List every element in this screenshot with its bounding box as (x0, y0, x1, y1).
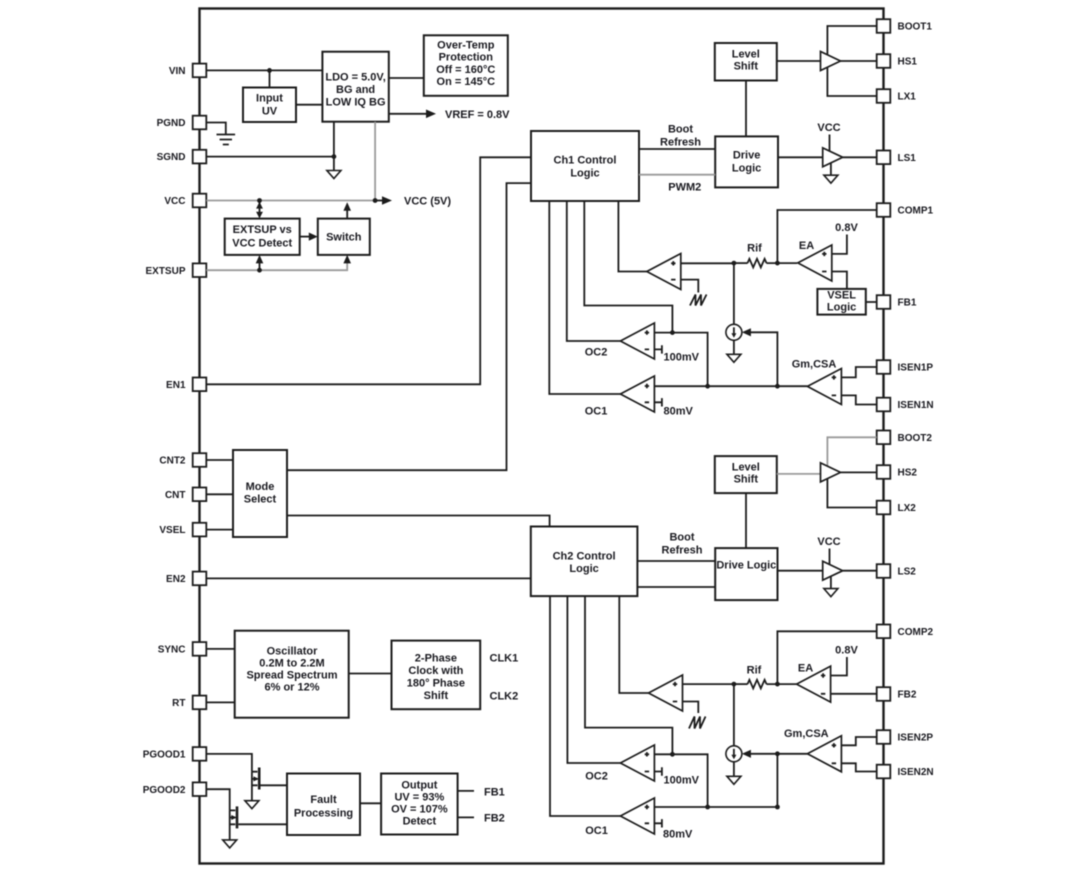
block Ch2 Control Logic (531, 527, 638, 597)
net label OC1-1 (585, 406, 608, 418)
wire LS2 driver to LS2 pin (843, 570, 877, 572)
net label OC2-2 (585, 771, 608, 783)
wire Drive Logic 2 to LS2 driver (778, 570, 823, 572)
wire Ch2 to Drive Logic 2 boot refresh (637, 560, 715, 562)
svg-text:Logic: Logic (827, 302, 856, 314)
pin LS1 (877, 151, 917, 165)
wire ISEN1N to CSA1 minus (841, 395, 876, 404)
svg-text:VSEL: VSEL (827, 290, 856, 302)
current source I2 (726, 746, 742, 762)
wire OC1-2 plus line (654, 806, 777, 808)
driver U-LS2 (823, 561, 843, 580)
svg-text:Logic: Logic (569, 563, 598, 575)
block Oscillator (235, 631, 349, 718)
wire Mode Select to Ch2 Control Logic (287, 516, 550, 527)
reference 100mV OC2-1 (654, 345, 699, 363)
pin RT (172, 696, 206, 710)
svg-text:0.8V: 0.8V (835, 645, 858, 657)
comparator OC1-1 (620, 376, 654, 412)
wire BOOT2 lower to LX2 (827, 474, 876, 508)
wire VIN to LDO (206, 69, 322, 71)
svg-text:Detect: Detect (403, 816, 437, 828)
svg-text:VCC Detect: VCC Detect (232, 238, 292, 250)
svg-text:ISEN1N: ISEN1N (898, 400, 934, 411)
net label VREF = 0.8V (445, 109, 510, 121)
wire VIN junction to Input UV (269, 70, 271, 87)
wire Q1 gate to Fault Processing (261, 784, 288, 786)
pin LX2 (877, 501, 917, 515)
block 2-Phase Clock (392, 641, 481, 710)
svg-text:FB2: FB2 (898, 690, 917, 701)
net label EA1 (799, 240, 814, 252)
value label 0.8V EA1 (835, 222, 858, 234)
wire PWM1 plus input (681, 262, 734, 264)
svg-text:80mV: 80mV (664, 406, 694, 418)
svg-text:VIN: VIN (169, 66, 186, 77)
ground I1 (727, 354, 741, 362)
node SGND junction (332, 154, 337, 159)
wire CNT2 to Mode Select (206, 459, 233, 461)
wire PGOOD1 to Q1 drain (206, 754, 252, 772)
wire Ch1 to OC2-1 plus node (584, 201, 672, 333)
wire PWM1 minus to ramp (681, 280, 699, 293)
ground Q1 (245, 801, 259, 809)
node VIN junction (267, 68, 272, 73)
pin VIN (169, 64, 206, 78)
svg-text:Logic: Logic (570, 168, 599, 180)
wire VSEL to Mode Select (206, 529, 233, 531)
wire Rif 2 to EA2 node (767, 683, 797, 685)
svg-text:HS2: HS2 (898, 468, 918, 479)
node VCC detect junction (257, 198, 262, 203)
net label VCC (5V) (404, 196, 451, 208)
svg-text:BOOT2: BOOT2 (898, 433, 933, 444)
svg-text:RT: RT (172, 698, 185, 709)
wire VCC to LS2 driver (829, 549, 831, 566)
wire EXTSUP junction up to detect block (256, 255, 264, 270)
wire Input UV to LDO (296, 104, 322, 106)
svg-text:PGOOD2: PGOOD2 (143, 785, 186, 796)
svg-text:Rif: Rif (747, 665, 762, 677)
wire Ch1 to Drive Logic 1 PWM2 (gray) (639, 174, 715, 176)
svg-text:Drive Logic: Drive Logic (716, 560, 776, 572)
pin HS1 (877, 54, 918, 68)
wire FB1 stub at Output Detect (458, 790, 474, 792)
wire Ch2 to Drive Logic 2 lower (637, 586, 715, 588)
net label Boot Refresh 1 (660, 124, 701, 149)
IC outer boundary (200, 9, 884, 864)
value label 0.8V EA2 (835, 645, 858, 657)
wire current source 2 top (733, 684, 735, 746)
node OC2-1 plus junction (670, 330, 675, 335)
pin CNT2 (159, 453, 206, 467)
svg-text:BG and: BG and (336, 84, 375, 96)
svg-text:Gm,CSA: Gm,CSA (784, 728, 829, 740)
pin COMP2 (877, 625, 934, 639)
pin EN1 (166, 378, 206, 392)
net label Gm,CSA 1 (792, 359, 837, 371)
amplifier CSA1 (807, 369, 841, 405)
wire junction to Rif 2 (734, 683, 748, 685)
wire PWM2 minus to ramp (683, 702, 699, 714)
pin SYNC (158, 642, 207, 656)
wire ISEN2N to CSA2 minus (841, 763, 876, 771)
transistor Q2 (230, 806, 237, 840)
svg-text:VCC (5V): VCC (5V) (404, 196, 451, 208)
block Level Shift 2 (715, 456, 777, 493)
pin PGOOD2 (143, 782, 207, 796)
svg-text:Mode: Mode (246, 481, 275, 493)
net label OC1-2 (585, 825, 608, 837)
wire Drive Logic 1 to LS1 driver (778, 156, 823, 158)
svg-text:Gm,CSA: Gm,CSA (792, 359, 837, 371)
svg-text:COMP2: COMP2 (898, 627, 934, 638)
arrow VCC 5V (382, 196, 392, 205)
svg-text:EA: EA (799, 240, 814, 252)
svg-text:VCC: VCC (817, 536, 840, 548)
svg-text:PGOOD1: PGOOD1 (143, 750, 186, 761)
svg-text:SGND: SGND (157, 152, 186, 163)
svg-text:FB1: FB1 (484, 787, 505, 799)
ground LS1 (824, 175, 838, 183)
wire OC1-1 output to Ch1 (549, 201, 620, 394)
pin ISEN2P (877, 730, 934, 744)
svg-text:CNT2: CNT2 (159, 456, 186, 467)
svg-text:ISEN2N: ISEN2N (898, 767, 934, 778)
wire LS1 driver to ground (830, 163, 832, 175)
svg-text:0.2M to 2.2M: 0.2M to 2.2M (259, 658, 324, 670)
wire current source 1 top (733, 263, 735, 324)
svg-text:Logic: Logic (732, 163, 761, 175)
wire BOOT2 upper (gray) (827, 437, 876, 474)
wire RT to Oscillator (206, 701, 234, 703)
op-amp EA1 (798, 245, 832, 281)
wire SGND to LDO ground (206, 156, 334, 158)
op-amp EA2 (797, 666, 831, 702)
svg-text:LX2: LX2 (898, 503, 917, 514)
wire CSA1 output line (654, 385, 807, 387)
reference 80mV OC1-2 (654, 819, 693, 840)
pin EXTSUP (145, 263, 206, 277)
pin BOOT2 (877, 431, 933, 445)
wire CSA2 node down to OC1-2 line (776, 754, 778, 807)
svg-text:EN2: EN2 (166, 574, 186, 585)
wire Ch1 to Drive Logic 1 boot refresh (639, 148, 715, 150)
node EXTSUP junction (257, 268, 262, 273)
svg-text:CNT: CNT (165, 490, 186, 501)
svg-text:Boot: Boot (669, 532, 694, 544)
ramp generator 1 (690, 295, 707, 306)
svg-text:Off = 160°C: Off = 160°C (436, 64, 495, 76)
pin PGOOD1 (143, 747, 207, 761)
svg-text:6% or 12%: 6% or 12% (264, 682, 319, 694)
wire Fault Processing to Output Detect (360, 802, 381, 804)
pin HS2 (877, 465, 918, 479)
svg-text:OC1: OC1 (585, 406, 608, 418)
block LDO (322, 52, 388, 122)
net label Gm,CSA 2 (784, 728, 829, 740)
wire EA1 minus to VSEL Logic (832, 272, 847, 289)
wire OC1-2 output to Ch2 (550, 596, 620, 816)
wire Switch top arrow to VCC line (343, 202, 351, 218)
arrow into I1 (742, 328, 751, 336)
block EXTSUP vs VCC Detect (225, 219, 300, 255)
wire HS1 driver to HS1 pin (841, 60, 877, 62)
amplifier CSA2 (807, 736, 841, 772)
wire VREF output (389, 113, 427, 115)
wire ISEN2P to CSA2 plus (841, 737, 876, 745)
wire LDO bottom to ground arrow (333, 122, 335, 171)
svg-text:EXTSUP vs: EXTSUP vs (233, 224, 292, 236)
pin VSEL (159, 523, 206, 537)
wire Ch2 to OC2-2 plus node (585, 596, 672, 754)
wire VCC to EXTSUP detect (double arrow) (256, 202, 263, 219)
value label Rif 1 (747, 243, 762, 255)
svg-text:Switch: Switch (326, 232, 362, 244)
pin PGND (157, 116, 207, 130)
net label Boot Refresh 2 (662, 532, 703, 557)
wire Oscillator to 2-Phase Clock (349, 673, 392, 675)
svg-text:FB2: FB2 (484, 813, 505, 825)
wire Mode Select to Ch1 Control Logic (287, 183, 531, 470)
svg-text:VCC: VCC (164, 196, 185, 207)
block Level Shift 1 (715, 43, 777, 81)
wire BOOT1 to LX1 (827, 26, 876, 96)
svg-text:Clock with: Clock with (408, 665, 463, 677)
wire SYNC to Oscillator (206, 648, 234, 650)
svg-text:PWM2: PWM2 (668, 182, 701, 194)
node OC1-2 right junction (775, 805, 780, 810)
block Output UV OV Detect (381, 774, 458, 835)
wire CNT to Mode Select (206, 493, 233, 495)
wire PGOOD2 to Q2 drain (206, 789, 229, 810)
wire OC2-2 output to Ch2 (567, 596, 620, 763)
wire EN2 to Ch2 Control Logic (206, 577, 531, 579)
node OC1 branch junction (705, 384, 710, 389)
ground I2 (727, 776, 741, 784)
svg-text:EN1: EN1 (166, 380, 186, 391)
svg-text:Ch1 Control: Ch1 Control (554, 155, 617, 167)
svg-text:100mV: 100mV (664, 352, 700, 364)
svg-text:100mV: 100mV (664, 775, 700, 787)
node PWM2 input junction (732, 682, 737, 687)
svg-text:Spread Spectrum: Spread Spectrum (246, 670, 337, 682)
current source I1 (726, 324, 742, 340)
block Over-Temp Protection (424, 35, 508, 96)
pin LX1 (877, 89, 917, 103)
svg-text:Fault: Fault (310, 794, 337, 806)
arrow VREF (426, 110, 436, 119)
wire VSEL Logic to FB1 pin (866, 301, 877, 303)
node VCC 5V junction (373, 198, 378, 203)
wire PWM2 output to Ch2 (619, 596, 648, 693)
ground Q2 (223, 840, 237, 848)
node EA2 output junction (775, 682, 780, 687)
ground PGND earth (217, 135, 236, 145)
svg-text:LDO = 5.0V,: LDO = 5.0V, (325, 72, 385, 84)
wire FB2 stub at Output Detect (458, 816, 474, 818)
reference 100mV OC2-2 (654, 767, 699, 786)
svg-text:Level: Level (732, 462, 760, 474)
svg-text:80mV: 80mV (663, 829, 693, 841)
block Drive Logic 1 (715, 136, 778, 187)
node CSA2 output junction (775, 751, 780, 756)
svg-text:2-Phase: 2-Phase (415, 653, 457, 665)
svg-text:CLK2: CLK2 (490, 691, 519, 703)
wire CSA2 feed to current source 2 (746, 753, 808, 755)
net label EA2 (798, 663, 813, 675)
svg-text:OC2: OC2 (585, 347, 608, 359)
svg-text:Output: Output (401, 780, 437, 792)
arrow into I2 (742, 750, 751, 758)
wire Rif 1 to EA1 node (767, 262, 798, 264)
resistor Rif 2 (748, 680, 767, 689)
svg-text:Protection: Protection (439, 52, 494, 64)
wire Level Shift 2 to Drive Logic 2 (745, 493, 747, 548)
wire COMP2 pin to EA2 node (777, 631, 876, 684)
node CSA1 output junction (775, 384, 780, 389)
net label VCC LS2 (817, 536, 840, 548)
wire Level Shift 1 to Drive Logic 1 (745, 81, 747, 137)
pin ISEN1P (877, 360, 934, 374)
svg-text:Rif: Rif (747, 243, 762, 255)
block VSEL Logic (817, 289, 865, 315)
svg-text:OV = 107%: OV = 107% (391, 804, 448, 816)
svg-text:UV = 93%: UV = 93% (394, 792, 444, 804)
block Mode Select (233, 450, 287, 537)
svg-text:PGND: PGND (157, 118, 186, 129)
svg-text:LS2: LS2 (898, 567, 917, 578)
svg-text:CLK1: CLK1 (490, 653, 519, 665)
wire EXTSUP pin line (gray) (206, 259, 347, 270)
wire VCC pin to 5V node (gray) (206, 200, 375, 202)
resistor Rif 1 (748, 259, 767, 268)
block Fault Processing (287, 774, 360, 836)
driver U-LS1 (823, 148, 843, 167)
pin FB2 (877, 687, 917, 701)
block Ch1 Control Logic (531, 131, 639, 201)
svg-text:LS1: LS1 (898, 153, 917, 164)
pin COMP1 (877, 203, 934, 217)
svg-text:Refresh: Refresh (662, 545, 703, 557)
svg-text:HS1: HS1 (898, 57, 918, 68)
svg-text:Refresh: Refresh (660, 137, 701, 149)
svg-text:OC1: OC1 (585, 825, 608, 837)
wire Level Shift 2 to HS2 driver (gray) (777, 473, 821, 475)
comparator PWM1 (647, 254, 681, 290)
wire Q2 gate to Fault Processing (238, 823, 287, 825)
pin LS2 (877, 564, 917, 578)
wire EXTSUP detect to Switch (300, 233, 318, 241)
pin SGND (157, 150, 207, 164)
wire VCC 5V stub (375, 200, 383, 202)
node EA1 output junction (775, 261, 780, 266)
driver U-HS2 (821, 463, 841, 482)
wire EN1 to Ch1 Control Logic (206, 157, 531, 384)
ramp generator 2 (689, 717, 706, 729)
svg-text:VSEL: VSEL (159, 525, 185, 536)
svg-text:COMP1: COMP1 (898, 206, 934, 217)
svg-text:VREF = 0.8V: VREF = 0.8V (445, 109, 510, 121)
svg-text:ISEN2P: ISEN2P (898, 733, 934, 744)
svg-text:LX1: LX1 (898, 92, 917, 103)
wire EA2 minus to FB2 pin (831, 693, 877, 695)
pin BOOT1 (877, 19, 933, 33)
comparator PWM2 (649, 675, 683, 711)
transistor Q1 (252, 768, 259, 801)
wire OC2-1 output to Ch1 (567, 201, 621, 341)
net label OC2-1 (585, 347, 608, 359)
net label PWM2 (668, 182, 701, 194)
wire PGND to ground (206, 123, 226, 135)
wire current source 2 to ground (733, 762, 735, 777)
svg-text:LOW IQ BG: LOW IQ BG (326, 97, 386, 109)
svg-text:Over-Temp: Over-Temp (437, 40, 495, 52)
wire HS2 driver to HS2 pin (841, 471, 877, 473)
wire LS1 driver to LS1 pin (843, 156, 877, 158)
svg-text:Ch2 Control: Ch2 Control (553, 551, 616, 563)
svg-text:EA: EA (798, 663, 813, 675)
pin VCC (164, 194, 206, 208)
svg-text:Oscillator: Oscillator (267, 646, 318, 658)
pin ISEN2N (877, 765, 934, 779)
pin ISEN1N (877, 398, 934, 412)
node OC2-2 plus junction (670, 752, 675, 757)
reference 80mV OC1-1 (654, 398, 693, 417)
svg-text:Drive: Drive (733, 150, 761, 162)
wire PWM1 output to Ch1 (618, 201, 646, 272)
net label CLK1 (490, 653, 519, 665)
value label Rif 2 (747, 665, 762, 677)
net label VCC LS1 (817, 122, 840, 134)
wire LDO 5V output (gray) (374, 122, 376, 201)
wire CSA1 feed to current source 1 (746, 332, 778, 386)
comparator OC2-1 (620, 323, 654, 359)
block Input UV (243, 88, 296, 123)
wire ISEN1P to CSA1 plus (841, 367, 876, 377)
svg-text:OC2: OC2 (585, 771, 608, 783)
svg-text:Shift: Shift (424, 690, 449, 702)
comparator OC2-2 (620, 745, 654, 781)
svg-text:Input: Input (256, 93, 283, 105)
pin FB1 (877, 295, 917, 309)
wire LS2 driver to ground (830, 577, 832, 589)
svg-text:On = 145°C: On = 145°C (437, 76, 496, 88)
net label FB2 (484, 813, 505, 825)
wire COMP1 pin to EA1 node (777, 210, 876, 263)
block Drive Logic 2 (715, 548, 777, 600)
wire OC2-2 plus line (654, 754, 707, 807)
svg-text:Shift: Shift (734, 61, 759, 73)
wire current source 1 to ground (733, 340, 735, 354)
pin EN2 (166, 572, 206, 586)
node OC2-2 branch junction (705, 805, 710, 810)
node PWM1 input junction (732, 261, 737, 266)
svg-text:180° Phase: 180° Phase (407, 678, 465, 690)
svg-text:SYNC: SYNC (158, 645, 186, 656)
svg-text:Level: Level (732, 49, 760, 61)
ground SGND arrow (327, 171, 341, 179)
svg-text:Boot: Boot (668, 124, 693, 136)
wire 0.8V to EA2 plus (831, 657, 847, 676)
arrow EXTSUP to Switch bottom (343, 255, 351, 264)
ground LS2 (824, 589, 838, 597)
svg-text:ISEN1P: ISEN1P (898, 363, 934, 374)
svg-text:VCC: VCC (817, 122, 840, 134)
wire junction to Rif 1 (734, 262, 748, 264)
svg-text:UV: UV (262, 106, 278, 118)
svg-text:FB1: FB1 (898, 298, 917, 309)
